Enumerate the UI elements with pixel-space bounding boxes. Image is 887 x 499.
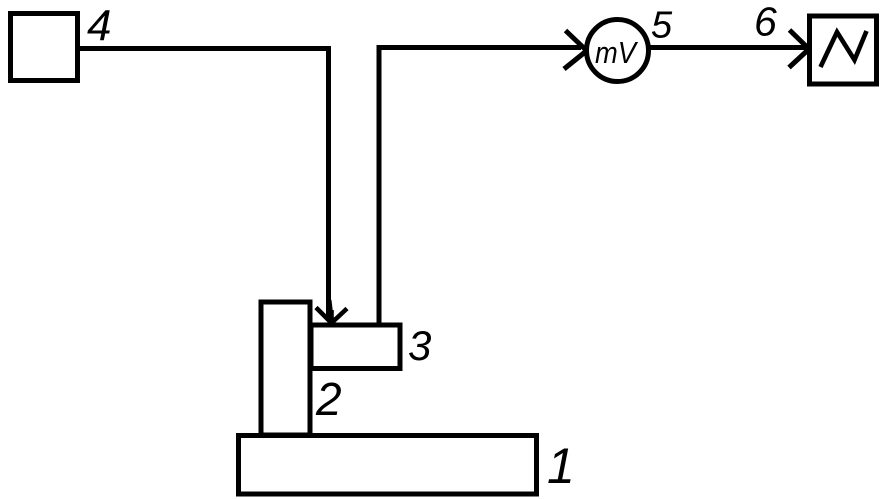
- svg-text:4: 4: [87, 2, 111, 51]
- svg-text:1: 1: [547, 438, 575, 494]
- svg-text:mV: mV: [595, 35, 639, 70]
- svg-text:5: 5: [651, 5, 673, 47]
- svg-text:6: 6: [754, 0, 777, 45]
- svg-text:3: 3: [408, 322, 431, 369]
- svg-text:2: 2: [315, 373, 342, 425]
